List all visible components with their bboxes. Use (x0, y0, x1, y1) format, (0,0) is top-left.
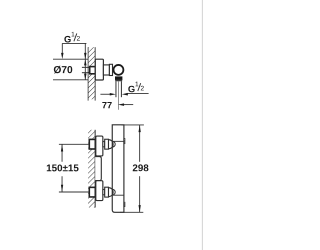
wall left edge (top view) (87, 47, 89, 100)
top union square in wall (89, 139, 95, 149)
body outline (112, 125, 124, 212)
wall right edge (front view) (94, 130, 96, 208)
outlet pipe right edge (120, 81, 122, 97)
dia70 extension line top (53, 58, 88, 60)
bottom nipple (103, 190, 105, 195)
bulge arc top connection (112, 141, 115, 147)
bulge arc bottom connection (112, 189, 115, 195)
wall right edge (top view) (94, 47, 96, 100)
cartridge housing (103, 65, 109, 75)
label 77 (102, 102, 111, 108)
top escutcheon (96, 136, 103, 156)
150 dim extension bottom (59, 191, 89, 193)
leader under G1/2 right with left arrow to outlet pipe (127, 92, 149, 94)
right edge tick bottom (123, 202, 126, 206)
label 298 (133, 164, 149, 171)
298 dim extension bottom (120, 211, 143, 213)
bottom escutcheon (96, 181, 103, 201)
outlet pipe left edge (115, 81, 117, 97)
escutcheon (top view) (95, 59, 103, 80)
bottom hex nut (105, 187, 109, 197)
298 dim extension top (121, 124, 143, 126)
bottom cone (109, 188, 114, 197)
77 dimension line with right arrow (100, 93, 111, 95)
bridge plate between escutcheons (95, 157, 101, 181)
outlet centerline (117, 81, 119, 109)
faint table column rule (201, 0, 203, 250)
298 dim line upper segment (139, 125, 141, 162)
top cone (109, 140, 114, 149)
wall hatching (front view) (88, 130, 95, 208)
bottom union square in wall (89, 187, 95, 197)
dia70 extension line bottom (53, 79, 88, 81)
supply pipe through wall (82, 66, 90, 68)
top hex nut (105, 139, 109, 149)
label dia70 (54, 66, 72, 74)
body joint line top (112, 140, 124, 142)
top nipple (103, 142, 105, 147)
wall hatching (top view) (88, 47, 95, 99)
underline of G1/2 top (62, 42, 86, 44)
ring (109, 64, 112, 75)
150 dim line upper segment (61, 144, 63, 162)
union square in wall (90, 67, 96, 74)
G1/2 left drop line with down arrow (61, 43, 63, 54)
thermostat knob (top view) (114, 65, 124, 75)
outlet nut below knob (115, 76, 122, 80)
150 dim line lower segment (61, 176, 63, 192)
label 150+-15 (47, 164, 79, 171)
label G1/2 right (128, 82, 144, 93)
right edge tick top (123, 139, 126, 144)
150 dim extension top (59, 143, 89, 145)
body joint line bottom (112, 194, 124, 196)
label G1/2 top (64, 32, 80, 43)
second leader with left arrow to outlet centerline (123, 104, 134, 106)
G1/2 right drop / dia70 dimension line (84, 43, 86, 79)
298 dim line lower segment (139, 176, 141, 212)
